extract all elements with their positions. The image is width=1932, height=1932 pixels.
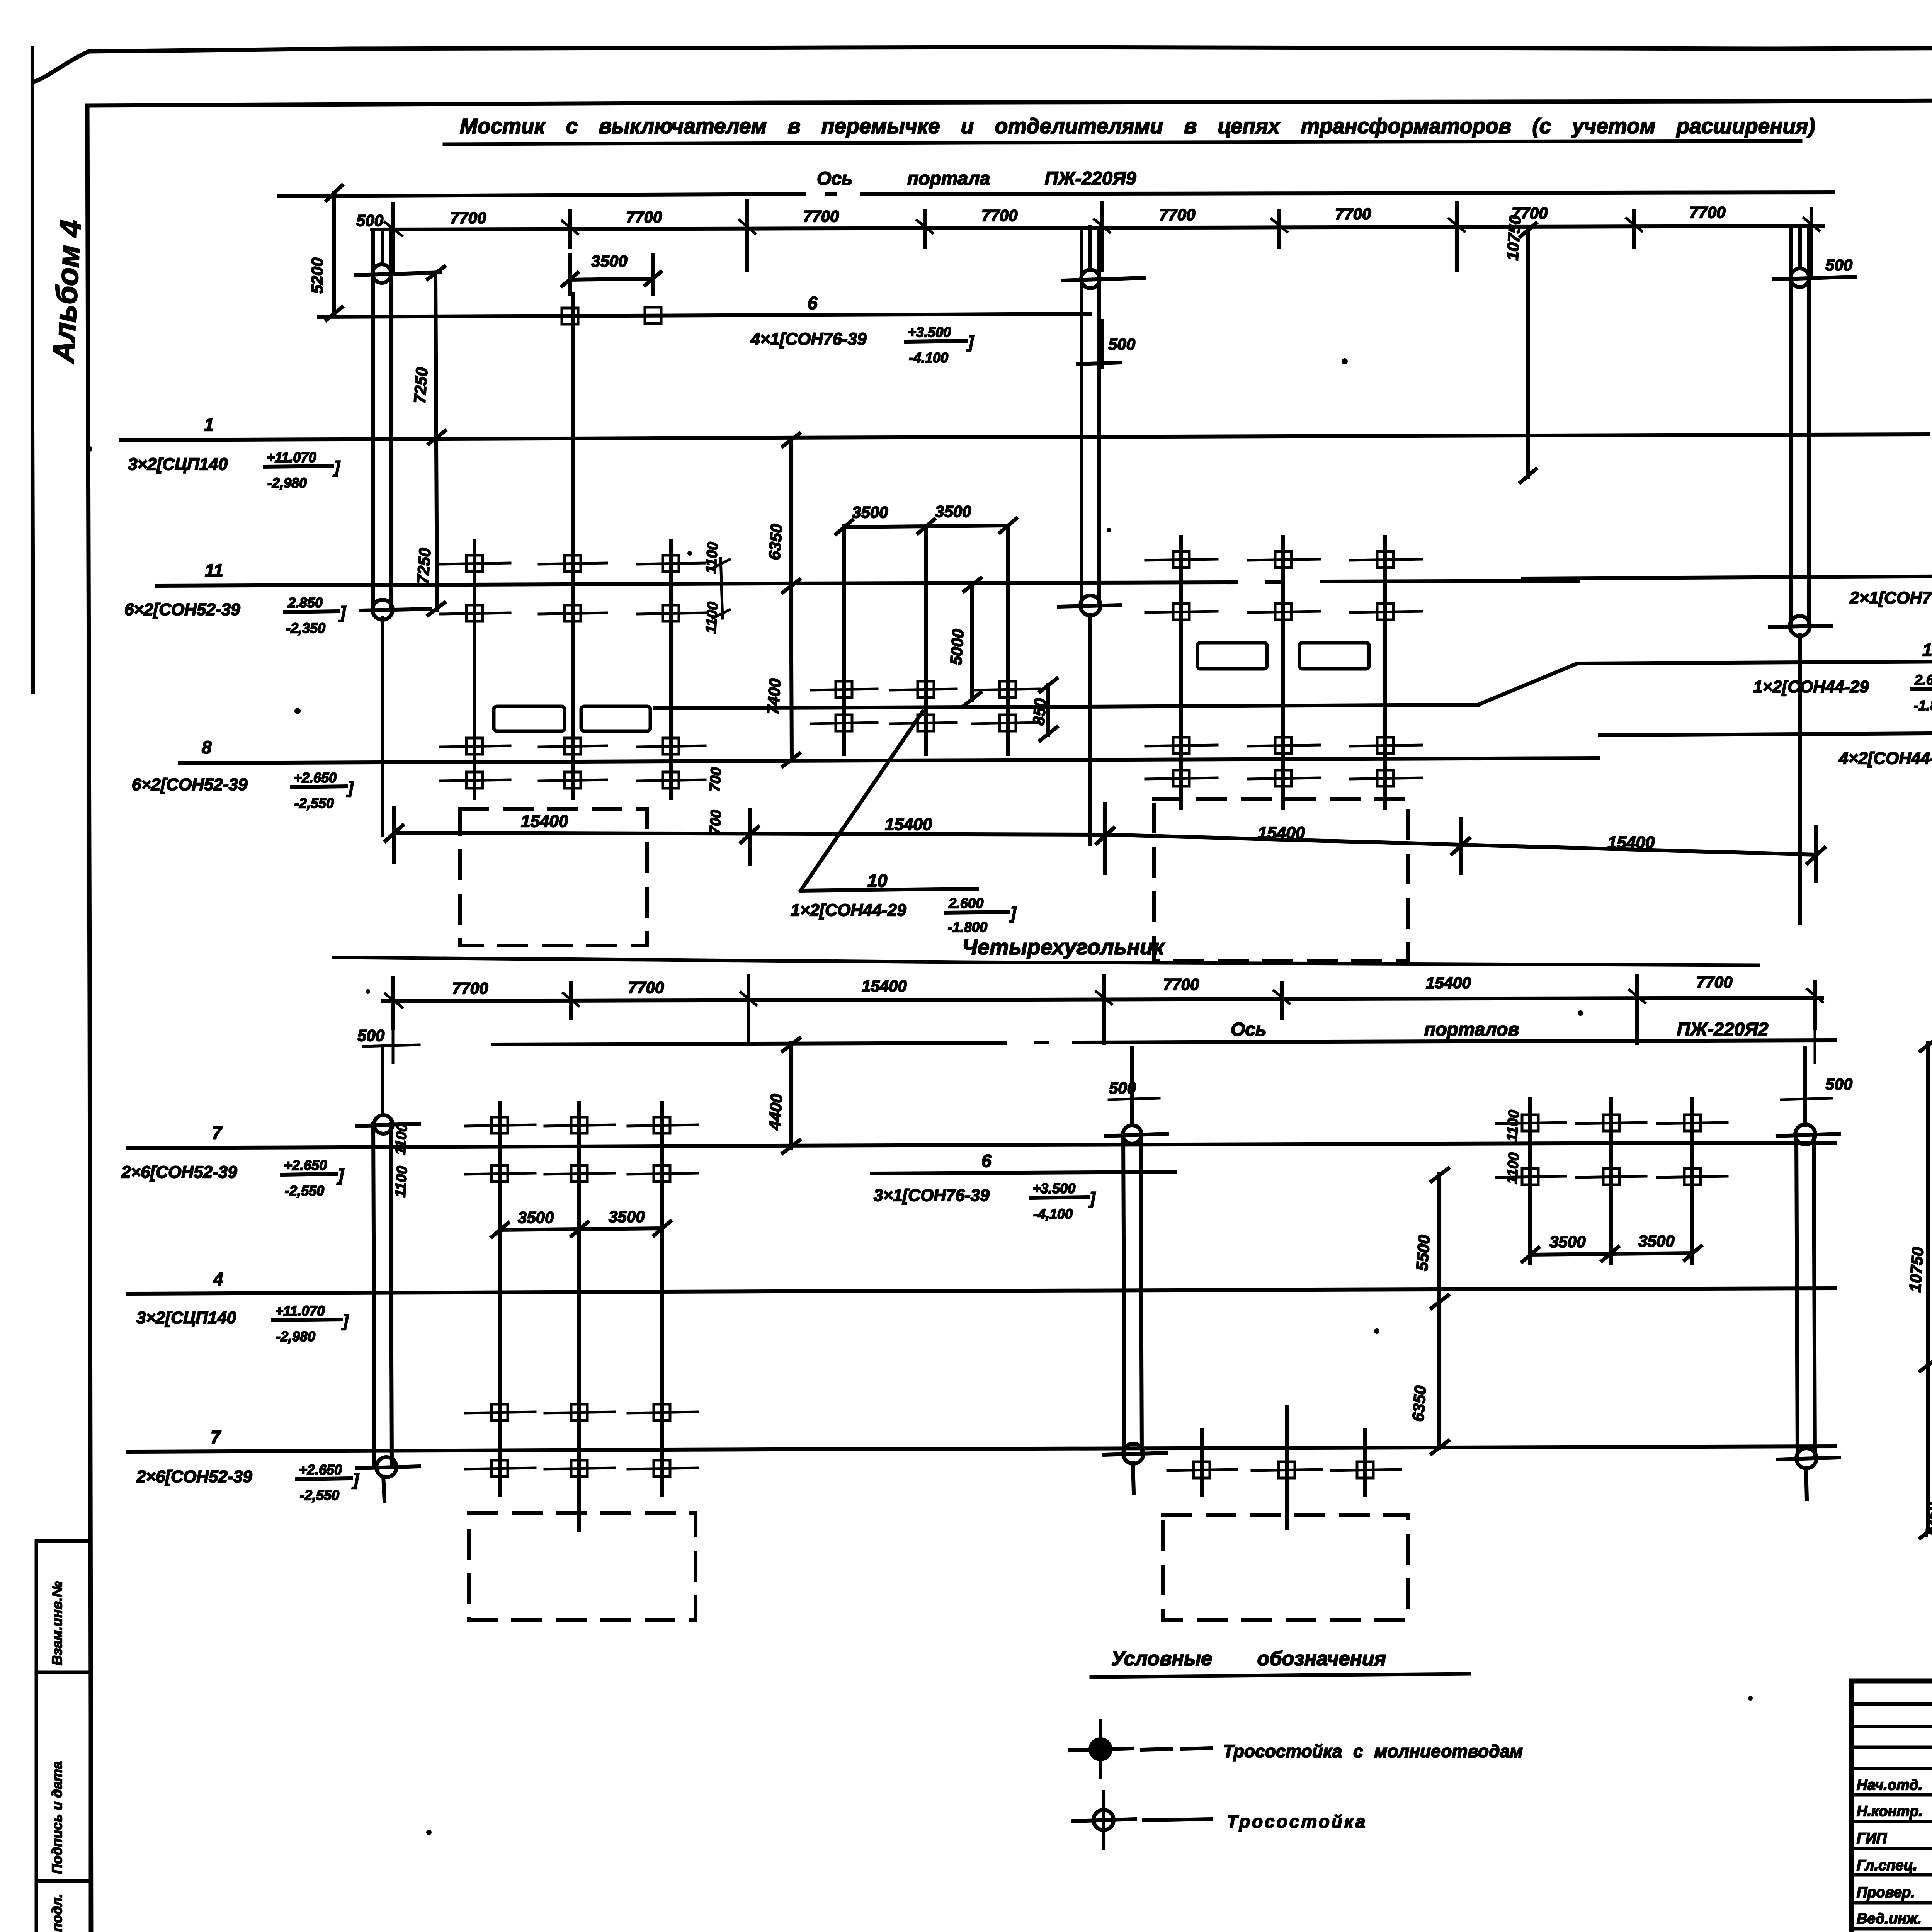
legend symbol 2 circle guy tower <box>1094 1810 1114 1830</box>
svg-text:7: 7 <box>212 1123 223 1143</box>
left cluster stands row 1458 <box>440 555 705 571</box>
middle cluster column c <box>1006 526 1010 754</box>
right cluster stands row 1929 <box>1146 737 1422 753</box>
dim 3500 3500 mid cluster <box>836 519 1016 534</box>
pole P1 bottom circle <box>372 600 393 620</box>
leader diagonal to label 10 mid <box>801 711 923 891</box>
svg-text:7700: 7700 <box>452 979 488 997</box>
pole P3 bottom circle <box>1790 616 1810 636</box>
svg-text:-2,980: -2,980 <box>267 475 307 491</box>
transformer dashed box B <box>1154 799 1408 961</box>
pole P3 top cross tick <box>1774 277 1855 279</box>
line 4 formula 3x2 SCP140 <box>136 1303 349 1344</box>
svg-text:Условные обозначения: Условные обозначения <box>1111 1648 1386 1670</box>
title block outer rect <box>1852 1681 1932 1932</box>
breaker rect left a <box>494 706 565 731</box>
lower line 4 <box>128 1288 1835 1294</box>
svg-text:Ось порталов ПЖ-: Ось порталов ПЖ-220Я2 <box>1231 1019 1769 1040</box>
lower dim ticks <box>393 976 1815 1043</box>
middle cluster stands row 1784 <box>811 681 1039 697</box>
svg-text:ГИП: ГИП <box>1857 1830 1887 1847</box>
svg-text:7250: 7250 <box>413 547 434 584</box>
lower line 7a <box>128 1143 1835 1148</box>
dim ticks upper <box>393 201 1811 270</box>
left margin stamp boxes column <box>36 1541 90 1672</box>
lower line 7b <box>128 1446 1835 1452</box>
svg-text:1100: 1100 <box>392 1123 411 1155</box>
svg-text:8: 8 <box>202 737 212 757</box>
svg-text:3×1[СОН76-39: 3×1[СОН76-39 <box>874 1186 990 1205</box>
svg-text:+3.500: +3.500 <box>1032 1180 1075 1196</box>
svg-text:2.600: 2.600 <box>948 895 983 911</box>
svg-text:Инв.№подл.: Инв.№подл. <box>49 1894 65 1932</box>
inner frame top line <box>87 98 1932 105</box>
svg-text:15400: 15400 <box>1607 833 1655 852</box>
right line 10 formula 1x2 SON44-29 <box>1753 672 1932 713</box>
svg-text:6×2[СОН52-39: 6×2[СОН52-39 <box>124 600 240 619</box>
pole Q1 dim tick <box>363 1028 419 1063</box>
svg-text:15400: 15400 <box>862 977 907 995</box>
dim 3500 line-6 stands <box>562 255 661 294</box>
lower portal axis line <box>493 1040 1835 1044</box>
svg-text:7700: 7700 <box>450 209 486 227</box>
svg-text:700: 700 <box>707 767 724 792</box>
label 10 mid underline <box>801 889 977 891</box>
dim 4400 vertical <box>783 1038 799 1153</box>
signature table thin top rows <box>1852 1704 1932 1769</box>
dim 6350 7400 vertical <box>783 434 799 766</box>
svg-text:3500: 3500 <box>852 503 888 521</box>
svg-text:1: 1 <box>204 415 214 435</box>
legend symbol 1 dashes <box>1142 1748 1211 1750</box>
line 7a formula 2x6 SON52-39 <box>121 1157 344 1199</box>
svg-text:7700: 7700 <box>628 978 664 997</box>
svg-text:1×2[СОН44-29: 1×2[СОН44-29 <box>791 901 906 920</box>
svg-text:10: 10 <box>867 871 888 891</box>
svg-text:7700: 7700 <box>1335 205 1371 223</box>
svg-text:-4.100: -4.100 <box>909 350 948 366</box>
dim 7250 vertical double <box>428 267 445 615</box>
svg-text:-2,350: -2,350 <box>286 620 325 636</box>
line 7b formula 2x6 SON52-39 <box>136 1462 359 1503</box>
breaker rect left b <box>581 706 650 731</box>
bus line 6 left <box>319 314 1090 317</box>
svg-text:Вед.инж.: Вед.инж. <box>1857 1911 1922 1927</box>
middle equipment line <box>655 705 1478 708</box>
svg-text:3500: 3500 <box>518 1208 554 1226</box>
lower left cluster column a <box>498 1103 502 1495</box>
lower right cluster column c <box>1690 1099 1694 1264</box>
svg-text:7700: 7700 <box>1159 206 1195 224</box>
right cluster stands row 1448 <box>1146 551 1422 568</box>
svg-text:1×2[СОН44-29: 1×2[СОН44-29 <box>1753 677 1869 696</box>
stand on line 6 a <box>562 308 578 324</box>
svg-text:-1.800: -1.800 <box>1914 697 1932 713</box>
line 1 formula 3x2 SCP140 <box>128 449 340 491</box>
dim 10750 7250 vertical right <box>1920 1038 1932 1538</box>
svg-text:+11.070: +11.070 <box>267 449 316 465</box>
svg-text:4400: 4400 <box>765 1093 786 1131</box>
svg-text:3500: 3500 <box>1549 1233 1585 1251</box>
left cluster column c <box>669 541 673 798</box>
svg-text:6: 6 <box>981 1151 992 1171</box>
svg-text:Н.контр.: Н.контр. <box>1857 1803 1923 1820</box>
lower mid-bottom column c <box>1363 1430 1367 1495</box>
svg-text:4×2[СОН44-29: 4×2[СОН44-29 <box>1838 749 1932 768</box>
svg-text:6: 6 <box>808 293 818 313</box>
svg-text:-4,100: -4,100 <box>1033 1206 1073 1222</box>
svg-text:+11.070: +11.070 <box>275 1303 325 1319</box>
main line 1 <box>121 434 1928 440</box>
lower pole Q2 middle <box>1123 1048 1142 1493</box>
pole P2 bottom circle <box>1080 595 1100 616</box>
svg-text:-2,550: -2,550 <box>285 1183 324 1199</box>
dim 850 small vertical <box>1040 679 1057 740</box>
middle cluster column a <box>842 526 846 754</box>
pole Q2 bottom cross tick <box>1104 1453 1166 1455</box>
svg-text:3500: 3500 <box>609 1207 645 1226</box>
svg-text:6350: 6350 <box>1409 1385 1429 1422</box>
lower left stands row 2912 <box>466 1117 697 1133</box>
pole P3 dim tick <box>1810 247 1813 278</box>
lower mid-bottom column b <box>1285 1406 1289 1528</box>
dim arrows upper <box>385 218 1819 236</box>
right line 9 <box>1600 733 1932 735</box>
main line 8 <box>180 758 1598 763</box>
outer top border line with left curl <box>34 46 1932 82</box>
svg-text:7700: 7700 <box>626 208 662 226</box>
svg-text:700: 700 <box>707 809 724 835</box>
title underline <box>444 141 1801 144</box>
svg-text:10: 10 <box>1922 640 1932 660</box>
pole P3 top circle <box>1791 269 1809 287</box>
svg-text:500: 500 <box>1108 335 1135 353</box>
svg-text:10750: 10750 <box>1503 215 1524 261</box>
svg-text:500: 500 <box>357 1026 384 1044</box>
transformer dashed box A <box>460 809 647 946</box>
svg-text:2.600: 2.600 <box>1914 672 1932 688</box>
lower formula 3x1 SON76-39 <box>874 1180 1096 1222</box>
left cluster stands row 2019 <box>440 772 705 788</box>
stand on line 6 b <box>645 307 661 323</box>
svg-text:11: 11 <box>205 560 223 580</box>
svg-text:5200: 5200 <box>308 258 326 294</box>
svg-text:15400: 15400 <box>1426 974 1471 992</box>
lower left cluster column b <box>577 1103 581 1530</box>
inner frame left line <box>87 105 91 1932</box>
svg-text:3×2[СЦП140: 3×2[СЦП140 <box>128 455 228 474</box>
svg-text:Ось портала ПЖ-220Я9: Ось портала ПЖ-220Я9 <box>817 168 1136 189</box>
svg-text:Мостик с выключателем в: Мостик с выключателем в перемычке и отде… <box>460 114 1815 138</box>
svg-text:Тросостойка с молниеотводам: Тросостойка с молниеотводам <box>1223 1741 1523 1761</box>
right line 9 formula 4x2 SON44-29 <box>1838 743 1932 785</box>
middle cluster column b <box>924 526 928 754</box>
svg-text:Провер.: Провер. <box>1857 1884 1915 1901</box>
pole Q2 dim tick <box>1109 1098 1159 1100</box>
svg-text:7700: 7700 <box>803 207 839 225</box>
dim 15400 ticks <box>386 804 1825 881</box>
svg-text:-2,980: -2,980 <box>276 1328 315 1344</box>
pole P2 dim 500 tick <box>1078 321 1121 367</box>
pole Q1 bottom circle <box>376 1457 396 1477</box>
svg-text:7700: 7700 <box>1163 975 1199 993</box>
lower left stands row 3037 <box>466 1165 697 1182</box>
dim 5500 6350 vertical <box>1432 1168 1448 1454</box>
svg-text:2×1[СОН76-39: 2×1[СОН76-39 <box>1849 588 1932 607</box>
pole Q1 bottom cross tick <box>357 1466 419 1468</box>
svg-text:1100: 1100 <box>392 1165 411 1198</box>
svg-text:Взам.инв.№: Взам.инв.№ <box>49 1581 65 1665</box>
svg-text:15400: 15400 <box>521 812 568 831</box>
pole P2 bottom cross tick <box>1059 605 1121 607</box>
left cluster stands row 1931 <box>440 738 705 754</box>
pole Q2 bottom circle <box>1123 1444 1143 1464</box>
svg-text:15400: 15400 <box>1258 823 1305 842</box>
portal pole P3 right <box>1791 227 1809 923</box>
line 6 formula 4x1 SON76-39 <box>750 324 974 366</box>
right cluster stands row 2014 <box>1146 770 1422 786</box>
pole Q3 top circle <box>1795 1124 1815 1145</box>
portal pole P1 <box>373 230 391 835</box>
svg-text:6350: 6350 <box>765 523 786 560</box>
middle cluster stands row 1871 <box>811 715 1039 731</box>
dim 5200 vertical <box>327 185 342 320</box>
svg-text:7250: 7250 <box>410 367 431 404</box>
lower left stands row 3800 <box>466 1460 697 1476</box>
breaker rect right a <box>1197 643 1267 669</box>
pole P2 top circle <box>1081 270 1100 288</box>
lower right cluster column b <box>1609 1099 1613 1264</box>
svg-text:-1.800: -1.800 <box>948 919 987 935</box>
left cluster stands row 1587 <box>440 605 705 621</box>
right line 10 <box>1478 661 1932 705</box>
lower mid-bottom column a <box>1200 1430 1204 1495</box>
line 8 formula 6x2 SON52-39 <box>132 770 354 811</box>
svg-text:500: 500 <box>1109 1079 1136 1097</box>
svg-text:2.850: 2.850 <box>287 595 323 611</box>
divider long line under quadrangle label <box>334 957 1758 965</box>
pole Q1 top cross tick <box>357 1124 419 1126</box>
svg-text:3500: 3500 <box>1638 1232 1674 1250</box>
svg-text:850: 850 <box>1029 697 1049 726</box>
svg-text:3500: 3500 <box>935 502 971 520</box>
dim ticks 1100 left cluster <box>713 558 730 618</box>
left cluster column b <box>571 294 575 798</box>
svg-text:2×6[СОН52-39: 2×6[СОН52-39 <box>121 1163 237 1182</box>
svg-text:6×2[СОН52-39: 6×2[СОН52-39 <box>132 775 248 794</box>
svg-text:Подпись и дата: Подпись и дата <box>49 1761 65 1874</box>
svg-text:500: 500 <box>1825 256 1852 274</box>
pole Q3 bottom circle <box>1796 1448 1816 1468</box>
main line 11 <box>156 581 1578 586</box>
pole P1 bottom cross tick <box>361 609 430 611</box>
svg-text:+2.650: +2.650 <box>299 1462 342 1478</box>
svg-text:1100: 1100 <box>1504 1109 1522 1142</box>
dim 15400 continuous bottom line <box>394 833 1816 855</box>
lower mid-bottom stands row 3804 <box>1168 1462 1401 1478</box>
svg-text:Гл.спец.: Гл.спец. <box>1857 1857 1917 1874</box>
dim 3500 3500 lower left <box>492 1221 670 1237</box>
svg-text:+3.500: +3.500 <box>908 324 951 340</box>
right cluster stands row 1583 <box>1146 604 1422 620</box>
breaker rect right b <box>1299 643 1369 669</box>
svg-text:3500: 3500 <box>591 252 627 270</box>
svg-text:4×1[СОН76-39: 4×1[СОН76-39 <box>750 330 867 349</box>
svg-text:3×2[СЦП140: 3×2[СЦП140 <box>136 1308 236 1327</box>
lower right stands row 3045 <box>1496 1168 1727 1185</box>
lower dimension line <box>383 998 1822 1001</box>
portal pole P2 middle <box>1082 227 1099 844</box>
svg-text:7700: 7700 <box>1689 203 1725 221</box>
svg-text:2×6[СОН52-39: 2×6[СОН52-39 <box>136 1467 252 1486</box>
lower right stands row 2906 <box>1496 1115 1727 1131</box>
formula 1x2 SON44-29 mid <box>791 895 1017 935</box>
svg-text:-2,550: -2,550 <box>300 1487 339 1503</box>
svg-text:+2.650: +2.650 <box>294 770 337 786</box>
svg-text:Тросостойка: Тросостойка <box>1227 1811 1367 1832</box>
svg-text:5000: 5000 <box>947 628 967 665</box>
lower pole Q1 <box>373 1046 392 1501</box>
svg-text:-2,550: -2,550 <box>294 795 334 811</box>
svg-text:1100: 1100 <box>1504 1152 1522 1184</box>
svg-text:Четырехугольник: Четырехугольник <box>962 935 1165 959</box>
lower left stands row 3655 <box>466 1404 697 1420</box>
svg-text:+2.650: +2.650 <box>284 1157 327 1173</box>
svg-text:Нач.отд.: Нач.отд. <box>1857 1777 1922 1793</box>
lower label 6 line <box>872 1172 1175 1173</box>
portal axis line upper <box>279 192 1833 196</box>
upper dimension line <box>372 226 1823 230</box>
dim 3500 3500 lower right <box>1522 1246 1701 1262</box>
lower left cluster column c <box>660 1103 664 1495</box>
svg-text:7700: 7700 <box>981 206 1017 224</box>
dim 5000 vertical <box>964 578 981 706</box>
signature rows text <box>1857 1777 1932 1932</box>
right cluster column c <box>1383 537 1387 808</box>
pole P2 top cross tick <box>1063 278 1144 281</box>
svg-text:15400: 15400 <box>885 815 932 834</box>
legend title underline <box>1091 1674 1469 1677</box>
lower right cluster column a <box>1528 1099 1532 1264</box>
transformer dashed box C <box>469 1513 696 1620</box>
pole Q3 top cross tick <box>1777 1134 1839 1136</box>
svg-text:10750: 10750 <box>1906 1247 1927 1293</box>
svg-text:7700: 7700 <box>1696 973 1732 991</box>
right line 6 <box>1523 576 1932 578</box>
svg-text:500: 500 <box>1825 1075 1852 1093</box>
legend symbol 2 line <box>1144 1819 1211 1820</box>
svg-text:5500: 5500 <box>1413 1234 1433 1271</box>
pole Q1 top circle <box>374 1115 393 1134</box>
pole Q3 bottom cross tick <box>1777 1458 1839 1459</box>
transformer dashed box D <box>1163 1515 1408 1620</box>
line 11 formula 6x2 SON52-39 <box>124 595 346 636</box>
signature table name rows <box>1852 1795 1932 1929</box>
svg-text:500: 500 <box>356 211 383 230</box>
pole P1 top cross tick <box>355 272 440 275</box>
lower dim arrows <box>385 989 1823 1007</box>
svg-text:4: 4 <box>213 1269 223 1289</box>
right cluster column a <box>1179 537 1183 808</box>
svg-text:7: 7 <box>211 1427 221 1447</box>
right cluster column b <box>1281 537 1285 808</box>
pole Q2 top circle <box>1123 1125 1141 1144</box>
pole Q3 dim tick <box>1781 1028 1832 1100</box>
pole P1 top circle <box>372 264 391 283</box>
dim 10750 vertical upper <box>1520 223 1536 482</box>
right line 6 formula 2x1 SON76-39 <box>1849 583 1932 624</box>
left cluster column a <box>473 541 476 798</box>
outer left sheet edge line <box>32 48 33 692</box>
legend symbol 1 circle guy tower with lightning rod <box>1090 1739 1111 1759</box>
pole Q2 top cross tick <box>1106 1134 1167 1136</box>
pole P3 bottom cross tick <box>1770 626 1832 627</box>
lower pole Q3 right <box>1796 1048 1815 1499</box>
